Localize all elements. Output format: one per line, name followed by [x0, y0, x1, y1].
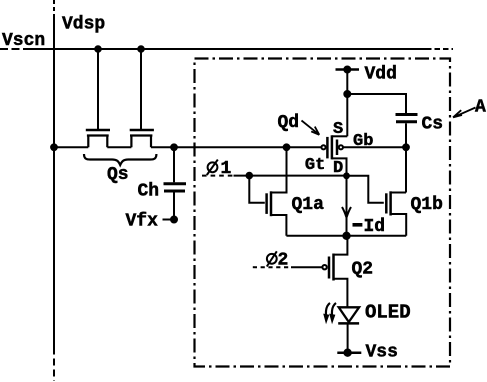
transistor Qd: top-gate bar Gt [326, 137, 329, 159]
wire: Cs bottom lead down to Gb node [405, 123, 407, 192]
wire: gate 1 drop [97, 49, 99, 129]
transistor Q1a: source arm down to rail [271, 215, 286, 236]
transistor Q1a: gate bar [265, 193, 268, 214]
svg-text:Vdsp: Vdsp [62, 15, 105, 35]
svg-text:Q1a: Q1a [292, 195, 325, 215]
svg-text:OLED: OLED [365, 302, 411, 324]
capacitor Ch: top plate [164, 182, 187, 185]
capacitor Ch: bottom plate [164, 190, 185, 193]
pointer arrow from label A to box [453, 108, 476, 118]
svg-text:Vdd: Vdd [365, 65, 397, 85]
pixel boundary box A (dash-dot) [195, 59, 451, 367]
transistor Qd: source arm [332, 135, 347, 137]
node: Cs branch junction [344, 91, 350, 97]
capacitor Cs: bottom plate [396, 120, 417, 123]
svg-text:Vscn: Vscn [2, 31, 45, 51]
transistor Qs left device: gate bar [86, 129, 110, 132]
OLED emission arrow 2 [332, 303, 336, 317]
svg-text:Qd: Qd [278, 113, 300, 133]
transistor Qs right device: gate bar [130, 129, 154, 132]
wire: D node to Q1b gate [347, 176, 384, 203]
transistor Q2: gate bar [328, 257, 331, 279]
svg-text:Vss: Vss [366, 343, 398, 363]
wire: phi2 solid run [291, 266, 322, 268]
transistor Q1b: gate bar [385, 193, 388, 213]
wire: Vdd terminal tick [336, 68, 360, 71]
transistor Qs right device: channel and legs [130, 136, 152, 148]
wire: phi2 dashed lead [253, 266, 291, 268]
wire: Vscn scan line (horizontal, dashed left end) [0, 48, 30, 50]
svg-text:A: A [475, 98, 486, 118]
wire: phi1 dashed lead [202, 175, 234, 177]
arrowhead: Id current direction [342, 207, 351, 218]
transistor Q2: source arm down to OLED [334, 279, 348, 307]
node: Vss terminal dot [344, 350, 350, 356]
transistor Q2: drain arm up to rail [334, 236, 348, 255]
wire: gate 2 drop [140, 49, 142, 129]
node: Ch tap on pixel wire [171, 144, 177, 150]
transistor Q2: gate bubble [322, 265, 326, 269]
wire: Vfx tick [163, 219, 175, 221]
brace under Qs pair [84, 154, 156, 165]
svg-text:D: D [333, 159, 343, 178]
transistor Q1a: channel [270, 191, 273, 216]
transistor Qd: top-gate bubble [321, 145, 325, 149]
wire: common rail Q1a/Q1b sources [286, 235, 406, 237]
svg-text:Cs: Cs [422, 115, 444, 135]
svg-text:Q2: Q2 [352, 260, 374, 280]
node: Vdd terminal dot [344, 67, 350, 73]
node: Vfx terminal dot [171, 217, 177, 223]
svg-text:1: 1 [221, 159, 232, 179]
capacitor Ch: top lead [173, 147, 175, 182]
transistor Qd: bottom-gate bar Gb [336, 140, 339, 156]
svg-text:Gb: Gb [353, 132, 373, 151]
transistor Q1b: source arm down to rail [391, 214, 407, 236]
svg-text:2: 2 [278, 250, 289, 270]
transistor Q1a: drain arm up to Gt wire [271, 147, 287, 192]
svg-text:Q1b: Q1b [411, 195, 443, 215]
wire: Id line with current arrow [346, 176, 348, 236]
wire: Vscn scan line dashed right end [426, 48, 453, 50]
node: phi1 branch dot [247, 173, 253, 179]
phi1 symbol circle+slash [208, 162, 218, 172]
node: Q1a drain to Gt wire dot [284, 144, 290, 150]
node: gate tap 2 on Vscn line [138, 46, 144, 52]
node: junction of Vdsp line and pixel wire [51, 144, 57, 150]
node: D junction dot [344, 173, 349, 178]
node: gate tap 1 on Vscn line [95, 46, 101, 52]
node: Gb junction dot [403, 144, 409, 150]
wire: phi1 solid run to D node [234, 175, 347, 177]
wire: phi1 branch down to Q1a gate [249, 176, 264, 203]
capacitor Ch: bottom lead [173, 193, 175, 220]
transistor Qd: bottom-gate bubble [339, 145, 343, 149]
svg-text:Gt: Gt [305, 156, 325, 175]
node: rail junction dot [343, 233, 349, 239]
svg-text:Vfx: Vfx [126, 212, 159, 232]
transistor Q1b: channel [389, 191, 392, 215]
wire: Qs drain to Qd top-gate (Gt) [151, 146, 322, 148]
wire: Vdsp data line (vertical, dashed top) [53, 0, 55, 14]
wire: Vdd down to Qd source [346, 70, 348, 137]
wire: Vscn scan line solid run [30, 48, 426, 50]
svg-text:Id: Id [364, 217, 386, 237]
wire: Vdsp data line dashed bottom [53, 348, 55, 382]
wire: Gb gate to Cs node [343, 146, 406, 148]
wire: OLED cathode to Vss [347, 323, 349, 352]
OLED emission arrow 1 [326, 303, 330, 317]
transistor Qs left device: channel and legs [87, 136, 109, 148]
svg-text:Ch: Ch [138, 182, 160, 202]
minus sign of -Id label [353, 223, 363, 227]
svg-text:S: S [333, 120, 343, 139]
transistor Q1b: drain arm up to Gb node [391, 192, 406, 194]
svg-text:Qs: Qs [107, 165, 129, 185]
pointer arrow from label Qd to Qd gate [302, 121, 320, 135]
diode OLED: triangle [339, 307, 359, 322]
transistor Q2: channel [332, 254, 335, 281]
wire: branch to Cs [347, 94, 406, 113]
diode OLED: cathode bar [338, 322, 359, 325]
transistor Qd: channel [331, 135, 334, 159]
wire: Vdsp to Qs source [54, 146, 88, 148]
wire: Vss tick [337, 351, 361, 354]
transistor Qd: drain arm [332, 158, 347, 175]
phi2 symbol circle+slash [267, 254, 277, 264]
wire: between Qs devices [107, 146, 131, 148]
wire: Vdsp data line solid run [53, 14, 55, 348]
capacitor Cs: top plate [396, 113, 418, 116]
